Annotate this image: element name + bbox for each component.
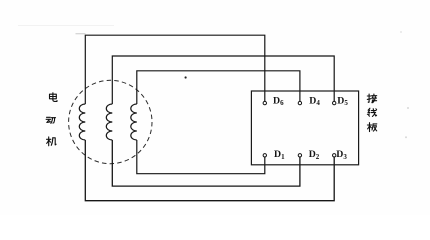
svg-text:D1: D1	[274, 149, 285, 161]
faint scan streak	[18, 24, 114, 27]
motor boundary (dashed circle)	[69, 80, 152, 163]
label 接 (board text char 1)	[367, 94, 376, 103]
terminal D1	[263, 154, 266, 157]
faint speck 3	[405, 136, 407, 138]
faint speck 2	[407, 107, 409, 109]
label 线 (board text char 2)	[367, 108, 376, 116]
svg-text:D3: D3	[336, 149, 347, 161]
faint speck 1	[400, 31, 402, 33]
wire W2 bottom hairpin: right wire to terminal D1	[137, 140, 265, 174]
label 机 (motor text char 3)	[47, 137, 57, 146]
wire U2 bottom hairpin: left wire to terminal D3	[85, 140, 334, 201]
label 动 (motor text char 2)	[46, 117, 55, 123]
svg-text:D2: D2	[309, 149, 320, 161]
wire U1 top hairpin: left wire to terminal D6	[85, 35, 264, 104]
faint smear near H1 corner	[76, 33, 86, 34]
node dot artifact	[185, 76, 187, 78]
terminal D6	[263, 101, 266, 104]
winding coil L3	[131, 104, 137, 140]
wire V2 bottom hairpin: middle wire to terminal D2	[112, 140, 300, 186]
terminal board outline	[251, 91, 358, 165]
label 电 (motor text char 1)	[50, 93, 58, 102]
label 板 (board text char 3)	[367, 123, 376, 132]
winding coil L2	[106, 104, 112, 140]
svg-text:D4: D4	[309, 95, 320, 107]
terminal D4	[298, 101, 301, 104]
terminal D5	[333, 101, 336, 104]
terminal D3	[333, 154, 336, 157]
wire V1 top hairpin: middle wire to terminal D5	[112, 56, 334, 104]
terminal D2	[298, 154, 301, 157]
wire W1 top hairpin: right wire to terminal D4	[137, 71, 300, 104]
winding coil L1	[79, 104, 85, 140]
svg-text:D6: D6	[273, 95, 284, 107]
svg-text:D5: D5	[337, 95, 348, 107]
